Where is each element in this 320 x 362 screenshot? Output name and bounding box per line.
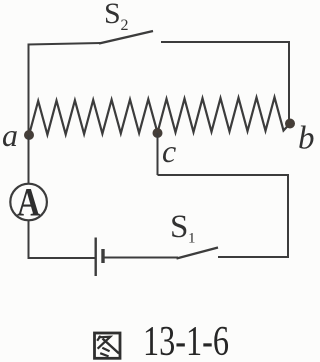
resistor (rheostat a-b) zigzag — [29, 97, 290, 135]
wire: right vertical from top wire down to node b — [288, 41, 290, 123]
switch S1 blade — [177, 248, 219, 259]
battery long plate (positive) — [94, 238, 96, 277]
wire: top horizontal left segment to S2 pivot — [28, 43, 102, 45]
svg-text:13-1-6: 13-1-6 — [143, 319, 229, 362]
wire: top horizontal right segment — [161, 41, 290, 43]
wire: battery to switch S1 pivot — [103, 257, 178, 259]
wire: left vertical from top corner down to node a — [28, 44, 30, 136]
wire: vertical drop from node c — [157, 133, 159, 175]
node c (dot) — [153, 128, 163, 138]
svg-text:1: 1 — [188, 231, 196, 247]
wire: from node a down to ammeter — [28, 135, 30, 184]
wire: from ammeter down to bottom-left corner — [28, 220, 30, 258]
battery short plate (negative) — [101, 249, 104, 263]
wire: right lower vertical from c-branch corner down to bottom wire — [287, 174, 289, 258]
svg-text:S: S — [104, 0, 121, 30]
svg-text:b: b — [298, 121, 315, 157]
svg-text:A: A — [17, 180, 40, 225]
wire: after S1 to bottom-right corner — [218, 256, 289, 258]
wire: bottom horizontal from left corner to battery positive plate — [28, 257, 96, 259]
ammeter A1 circle — [10, 184, 47, 221]
svg-text:a: a — [2, 117, 18, 153]
caption character tu (drawn glyph) — [95, 333, 121, 358]
svg-text:c: c — [162, 133, 176, 169]
svg-text:2: 2 — [121, 17, 129, 34]
node b (dot) — [285, 119, 295, 129]
switch S2 blade — [99, 31, 153, 44]
node a (dot) — [24, 130, 34, 140]
svg-text:S: S — [170, 209, 188, 245]
wire: c-branch horizontal to right side — [158, 174, 290, 176]
